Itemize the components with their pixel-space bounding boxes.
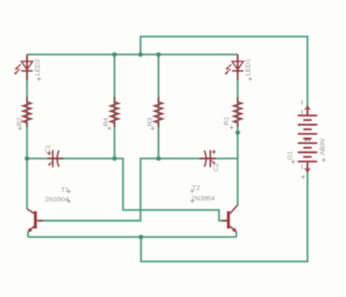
- wire LED1/R1 column down to T2 collector: [237, 55, 239, 206]
- svg-text:LED1: LED1: [245, 59, 252, 76]
- junction rail-supply: [138, 52, 143, 57]
- transistor T1: [27, 209, 43, 232]
- svg-text:R1: R1: [224, 116, 231, 125]
- polarity mark battery top pin: [301, 100, 303, 114]
- junction rail-R3: [156, 52, 161, 57]
- transistor T2: [222, 205, 237, 232]
- origin cross LED1: [248, 77, 252, 81]
- resistor R2: [23, 97, 31, 127]
- polarity mark battery bottom pin: [301, 165, 305, 179]
- origin cross G1: [291, 160, 295, 164]
- LED LED1: [225, 55, 244, 81]
- origin cross T2 value: [190, 199, 194, 203]
- origin cross T2 name: [190, 189, 194, 193]
- battery G1: [298, 106, 317, 172]
- wire left column LED2/R2 down to T1 collector: [26, 55, 28, 210]
- capacitor C1: [47, 150, 63, 167]
- LED LED2: [14, 55, 33, 81]
- svg-text:2N3904: 2N3904: [45, 196, 69, 203]
- wire C2 net from R3 node through C2 to R1/T2-collector column: [159, 158, 238, 160]
- wire T1 emitter stub: [27, 231, 29, 237]
- svg-text:T1: T1: [61, 187, 69, 194]
- junction R4 bottom node: [112, 156, 117, 161]
- svg-text:R3: R3: [147, 117, 154, 126]
- svg-text:R2: R2: [17, 117, 24, 126]
- origin cross R2: [18, 127, 22, 131]
- resistor R4: [110, 97, 118, 127]
- pin marker battery middle: [305, 139, 310, 141]
- resistor R3: [154, 97, 162, 127]
- junction T1 collector node: [25, 156, 30, 161]
- junction R3 bottom node: [156, 156, 161, 161]
- wire top supply line from junction to battery plus: [141, 37, 308, 107]
- pin marker battery top: [305, 107, 310, 110]
- svg-text:C2: C2: [213, 163, 220, 172]
- resistor R1: [234, 97, 242, 127]
- svg-text:C1: C1: [45, 144, 52, 153]
- wire battery return from ground rail to battery minus: [141, 172, 308, 262]
- junction ground rail to battery: [139, 235, 144, 240]
- wire emitter ground rail: [28, 236, 236, 238]
- svg-text:R4: R4: [103, 117, 110, 126]
- svg-text:LED2: LED2: [34, 59, 41, 76]
- svg-text:2N3904: 2N3904: [191, 196, 215, 203]
- capacitor C2: [200, 150, 216, 167]
- origin cross LED2: [37, 77, 41, 81]
- origin cross T1 name: [67, 190, 71, 194]
- wire C1 net from T1 collector node through C1 to R4 node then to T2 base: [27, 159, 227, 221]
- origin cross R4: [108, 127, 112, 131]
- junction R1 bottom node: [235, 130, 240, 135]
- wire R3 node down to T1 base: [38, 159, 159, 221]
- wire T2 emitter stub: [235, 231, 237, 237]
- wire R3 column: [158, 55, 160, 159]
- wire R4 column: [114, 55, 116, 159]
- pin marker battery bottom: [305, 168, 310, 171]
- svg-text:AB9V: AB9V: [319, 137, 326, 155]
- origin cross T1 value: [67, 199, 71, 203]
- origin cross AB9V: [322, 158, 326, 162]
- svg-text:G1: G1: [287, 151, 294, 160]
- junction rail-R4: [112, 52, 117, 57]
- wire main V+ rail: [27, 54, 238, 56]
- origin cross R3: [151, 127, 155, 131]
- origin cross R1: [230, 126, 234, 130]
